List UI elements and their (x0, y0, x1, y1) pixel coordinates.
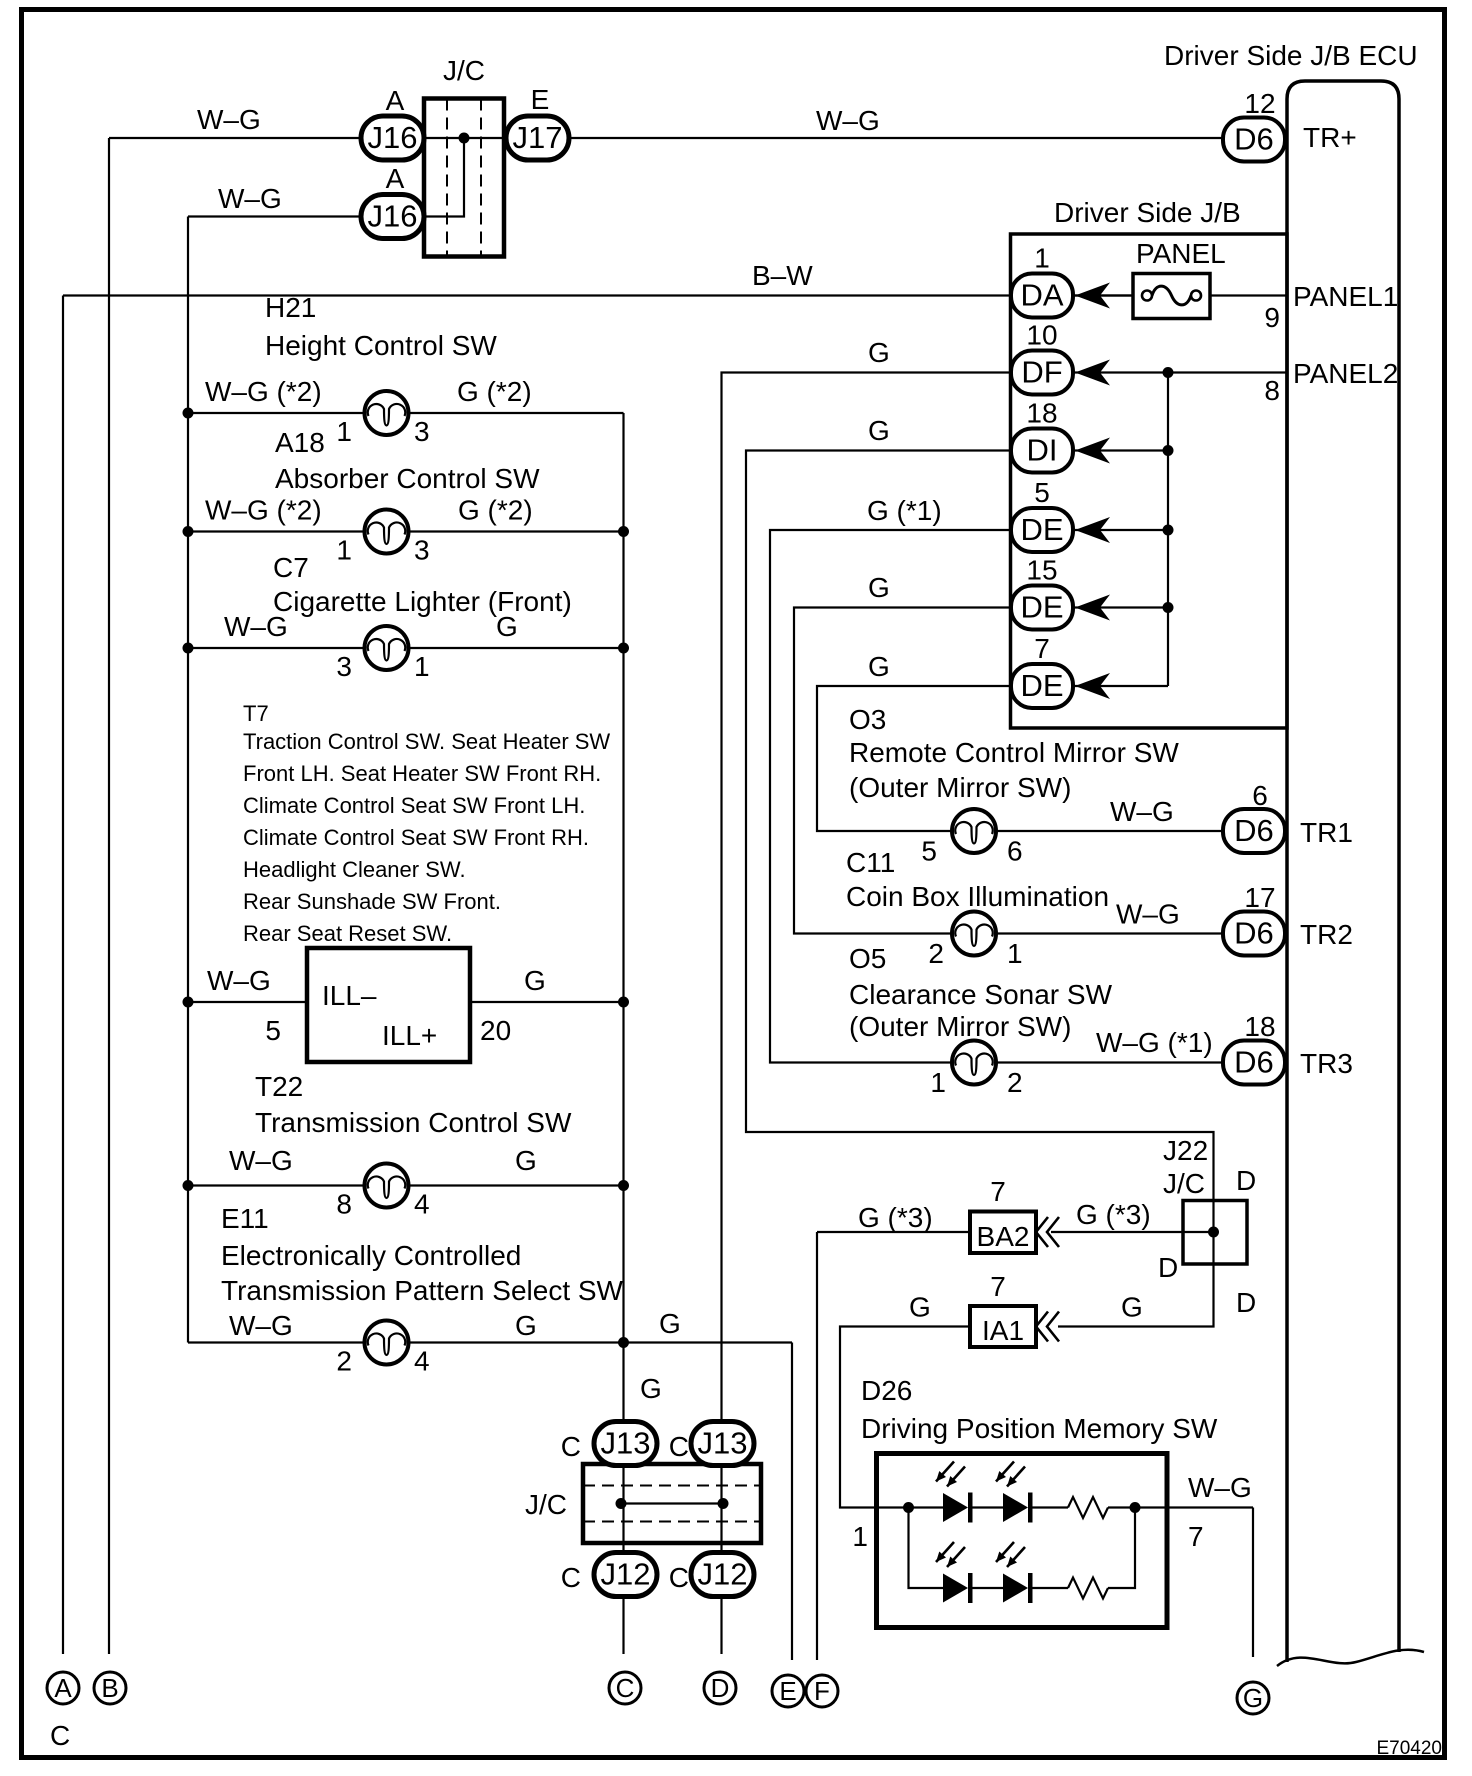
resistor R2 (row2) (1068, 1578, 1108, 1599)
svg-text:1: 1 (852, 1521, 868, 1552)
svg-text:7: 7 (990, 1271, 1006, 1302)
connector J13 pin C (right) (691, 1422, 754, 1466)
svg-text:C: C (561, 1431, 581, 1462)
svg-text:G: G (640, 1373, 662, 1404)
svg-text:4: 4 (414, 1189, 430, 1220)
svg-text:J16: J16 (368, 199, 418, 234)
svg-text:D: D (711, 1673, 730, 1703)
connector D6 pin 17 (TR2) (1223, 912, 1285, 956)
wire G net DE pin7 to O3 remote control mirror sw (817, 686, 1011, 831)
svg-text:Driver Side J/B ECU: Driver Side J/B ECU (1164, 40, 1418, 71)
LED D3 (row2 left) (936, 1542, 973, 1603)
svg-text:IA1: IA1 (982, 1315, 1024, 1346)
node F circle (806, 1675, 838, 1707)
svg-text:D6: D6 (1234, 1045, 1274, 1080)
svg-text:Rear Seat Reset SW.: Rear Seat Reset SW. (243, 921, 452, 946)
svg-text:G: G (515, 1145, 537, 1176)
LED D4 (row2 right) (996, 1542, 1033, 1603)
connector J16 pin A (lower) (361, 195, 424, 239)
svg-text:8: 8 (336, 1189, 352, 1220)
svg-text:Driving Position Memory SW: Driving Position Memory SW (861, 1413, 1218, 1444)
lamp O3 remote control mirror sw (952, 809, 1223, 853)
arrow connector DI (1075, 438, 1110, 464)
svg-text:G (*1): G (*1) (867, 495, 942, 526)
svg-text:E: E (531, 84, 550, 115)
connector DE pin 15 (1011, 586, 1073, 630)
svg-text:H21: H21 (265, 292, 316, 323)
svg-text:PANEL: PANEL (1136, 238, 1226, 269)
svg-text:C7: C7 (273, 552, 309, 583)
svg-text:6: 6 (1007, 836, 1023, 867)
svg-text:ILL–: ILL– (322, 980, 377, 1011)
svg-text:9: 9 (1264, 302, 1280, 333)
wire G net DI: DI oval to J22 J/C and IA1 (746, 451, 1214, 1327)
svg-text:W–G: W–G (1116, 899, 1180, 930)
svg-text:W–G: W–G (229, 1310, 293, 1341)
svg-text:TR1: TR1 (1300, 817, 1353, 848)
arrow connector DE pin5 (1075, 517, 1110, 543)
svg-text:Climate Control Seat SW Front: Climate Control Seat SW Front RH. (243, 825, 589, 850)
svg-text:W–G: W–G (224, 611, 288, 642)
svg-text:1: 1 (930, 1067, 946, 1098)
svg-text:J16: J16 (368, 120, 418, 155)
svg-text:Rear Sunshade SW Front.: Rear Sunshade SW Front. (243, 889, 501, 914)
svg-text:C: C (616, 1673, 635, 1703)
svg-text:W–G: W–G (816, 105, 880, 136)
wire W-G net A2: second J16 feed turning down as supply bus (188, 217, 424, 1343)
svg-text:W–G: W–G (197, 104, 261, 135)
svg-text:J12: J12 (698, 1557, 748, 1592)
wire G(*1) net DE pin5 to O5 clearance sonar sw (770, 530, 1011, 1063)
svg-text:J22: J22 (1163, 1135, 1208, 1166)
svg-text:G: G (524, 965, 546, 996)
svg-text:E11: E11 (221, 1203, 269, 1234)
svg-text:2: 2 (1007, 1067, 1023, 1098)
svg-text:15: 15 (1026, 555, 1057, 586)
svg-text:2: 2 (928, 938, 944, 969)
wire D26 row 1 (877, 1502, 1254, 1657)
fuse PANEL (1133, 274, 1210, 319)
connector J12 pin C (left) (594, 1553, 657, 1597)
svg-text:B: B (101, 1673, 118, 1703)
svg-text:O3: O3 (849, 704, 886, 735)
connector J13 pin C (left) (594, 1422, 657, 1466)
arrow connector DF (1075, 360, 1110, 386)
svg-text:C: C (50, 1720, 70, 1751)
lamp C11 coin box illumination (952, 912, 1223, 956)
svg-text:G (*3): G (*3) (1076, 1199, 1151, 1230)
svg-text:F: F (814, 1676, 830, 1706)
svg-text:(Outer Mirror SW): (Outer Mirror SW) (849, 1011, 1071, 1042)
wire DF row to ECU PANEL2 pin 8 with junction (1073, 371, 1287, 373)
svg-text:D6: D6 (1234, 122, 1274, 157)
svg-text:DE: DE (1020, 590, 1063, 625)
svg-text:7: 7 (1034, 633, 1050, 664)
svg-text:A: A (386, 85, 405, 116)
svg-text:2: 2 (336, 1346, 352, 1377)
svg-text:G: G (515, 1310, 537, 1341)
node B circle (94, 1672, 126, 1704)
svg-text:18: 18 (1244, 1011, 1275, 1042)
connector D6 pin 12 (TR+) (1223, 118, 1285, 162)
junction connector J/C (top) (424, 99, 504, 257)
svg-text:(Outer Mirror SW): (Outer Mirror SW) (849, 772, 1071, 803)
svg-text:ILL+: ILL+ (382, 1020, 437, 1051)
svg-text:DE: DE (1020, 512, 1063, 547)
wire G(*3) from BA2 to J22 (1051, 1231, 1214, 1233)
svg-text:TR2: TR2 (1300, 919, 1353, 950)
arrow connector DE pin7 (1075, 673, 1110, 699)
connector DE pin 5 (1011, 508, 1073, 552)
connector DA pin 1 (1011, 274, 1073, 318)
resistor R1 (row1) (1068, 1497, 1108, 1518)
svg-text:1: 1 (1007, 938, 1023, 969)
svg-text:J13: J13 (698, 1426, 748, 1461)
svg-text:DF: DF (1021, 355, 1062, 390)
svg-text:W–G: W–G (1188, 1472, 1252, 1503)
svg-text:G: G (868, 415, 890, 446)
svg-text:B–W: B–W (752, 260, 813, 291)
svg-text:Cigarette Lighter (Front): Cigarette Lighter (Front) (273, 586, 572, 617)
svg-text:7: 7 (1188, 1521, 1204, 1552)
node E circle (772, 1675, 804, 1707)
svg-text:W–G: W–G (207, 965, 271, 996)
svg-text:W–G (*2): W–G (*2) (205, 495, 322, 526)
svg-text:C: C (669, 1562, 689, 1593)
svg-text:Headlight Cleaner SW.: Headlight Cleaner SW. (243, 857, 466, 882)
svg-text:W–G: W–G (218, 183, 282, 214)
svg-text:G (*2): G (*2) (457, 376, 532, 407)
svg-text:Electronically Controlled: Electronically Controlled (221, 1240, 521, 1271)
svg-text:W–G: W–G (1110, 796, 1174, 827)
wire G net DF: from D rail corner to DF oval (722, 373, 1012, 1655)
svg-text:C: C (669, 1431, 689, 1462)
svg-text:Traction Control SW. Seat Heat: Traction Control SW. Seat Heater SW (243, 729, 610, 754)
svg-text:W–G (*1): W–G (*1) (1096, 1027, 1213, 1058)
svg-text:J/C: J/C (525, 1489, 567, 1520)
node D circle (704, 1672, 736, 1704)
svg-text:G: G (1243, 1683, 1263, 1713)
svg-text:Driver Side J/B: Driver Side J/B (1054, 197, 1241, 228)
svg-text:3: 3 (336, 651, 352, 682)
wire B-W net: from rail A to J/B pin DA (63, 296, 1133, 1655)
lamp C7 cigarette lighter front (183, 626, 630, 670)
svg-text:Transmission Control SW: Transmission Control SW (255, 1107, 572, 1138)
svg-text:20: 20 (480, 1015, 511, 1046)
svg-text:TR3: TR3 (1300, 1048, 1353, 1079)
svg-text:6: 6 (1252, 780, 1268, 811)
connector DE pin 7 (1011, 664, 1073, 708)
LED D1 (row1 left) (936, 1462, 973, 1523)
svg-text:10: 10 (1026, 320, 1057, 351)
svg-text:J/C: J/C (443, 55, 485, 86)
switch block T7 ILL box (183, 948, 630, 1062)
LED D2 (row1 right) (996, 1462, 1033, 1523)
svg-text:G (*2): G (*2) (458, 495, 533, 526)
svg-text:17: 17 (1244, 882, 1275, 913)
svg-text:12: 12 (1244, 88, 1275, 119)
svg-text:J13: J13 (601, 1426, 651, 1461)
svg-text:4: 4 (414, 1346, 430, 1377)
svg-text:18: 18 (1026, 398, 1057, 429)
svg-text:D6: D6 (1234, 916, 1274, 951)
svg-text:5: 5 (265, 1015, 281, 1046)
svg-text:3: 3 (414, 416, 430, 447)
lamp A18 absorber control sw (183, 510, 630, 554)
node A circle (47, 1672, 79, 1704)
connector DF pin 10 (1011, 351, 1073, 395)
wire junction net inside J/B (vertical tie line) (1073, 367, 1174, 686)
connector BA2 pin 7 (817, 1212, 1059, 1661)
svg-text:A: A (386, 163, 405, 194)
svg-text:G: G (909, 1292, 931, 1323)
wire D26 row 2 (909, 1508, 1136, 1589)
wire W-G net B: from vertical rail B to J16 and J17 to ECU TR+ pin 12 (109, 138, 1223, 1654)
svg-text:7: 7 (990, 1176, 1006, 1207)
lamp O5 clearance sonar sw (952, 1041, 1223, 1085)
svg-text:E: E (779, 1676, 796, 1706)
svg-text:D: D (1236, 1287, 1256, 1318)
svg-text:C: C (561, 1562, 581, 1593)
Driver Side J/B box (1011, 234, 1288, 728)
svg-text:G: G (868, 337, 890, 368)
svg-text:G: G (659, 1308, 681, 1339)
svg-text:DI: DI (1027, 433, 1058, 468)
svg-text:8: 8 (1264, 375, 1280, 406)
svg-text:J/C: J/C (1163, 1168, 1205, 1199)
svg-text:PANEL2: PANEL2 (1293, 358, 1398, 389)
svg-text:Clearance Sonar SW: Clearance Sonar SW (849, 979, 1113, 1010)
connector DI pin 18 (1011, 429, 1073, 473)
switch D26 driving position memory sw (877, 1454, 1168, 1628)
connector D6 pin 6 (TR1) (1223, 809, 1285, 853)
svg-text:E70420: E70420 (1376, 1738, 1442, 1759)
svg-text:D: D (1236, 1165, 1256, 1196)
svg-text:PANEL1: PANEL1 (1293, 281, 1398, 312)
node G circle (1237, 1682, 1269, 1714)
svg-text:A18: A18 (275, 427, 325, 458)
svg-text:1: 1 (336, 416, 352, 447)
svg-text:G: G (496, 611, 518, 642)
svg-text:W–G: W–G (229, 1145, 293, 1176)
wire rail (right of switch column, G net) (622, 413, 624, 1654)
svg-text:TR+: TR+ (1303, 122, 1357, 153)
connector J17 pin E (506, 116, 569, 160)
connector D6 pin 18 (TR3) (1223, 1041, 1285, 1085)
svg-text:W–G (*2): W–G (*2) (205, 376, 322, 407)
svg-text:Transmission Pattern Select SW: Transmission Pattern Select SW (221, 1275, 624, 1306)
ECU connector body Driver Side J/B ECU (1277, 81, 1424, 1666)
svg-text:J17: J17 (513, 120, 563, 155)
svg-text:D: D (1158, 1252, 1178, 1283)
svg-text:Coin Box Illumination: Coin Box Illumination (846, 881, 1109, 912)
svg-text:BA2: BA2 (977, 1221, 1030, 1252)
junction connector J/C (bottom) (583, 1464, 761, 1543)
svg-text:T22: T22 (255, 1071, 303, 1102)
wire DA row to fuse and ECU PANEL1 pin 9 (1073, 294, 1287, 296)
node C circle (609, 1672, 641, 1704)
lamp E11 transmission pattern select sw (188, 1321, 792, 1661)
svg-text:1: 1 (336, 535, 352, 566)
svg-text:Remote Control Mirror SW: Remote Control Mirror SW (849, 737, 1179, 768)
svg-text:D26: D26 (861, 1375, 912, 1406)
svg-text:G (*3): G (*3) (858, 1202, 933, 1233)
svg-text:1: 1 (1034, 243, 1050, 274)
svg-text:Height Control SW: Height Control SW (265, 330, 497, 361)
svg-text:Climate Control Seat SW Front: Climate Control Seat SW Front LH. (243, 793, 585, 818)
svg-text:DA: DA (1020, 278, 1063, 313)
arrow connector DA (1075, 283, 1110, 309)
svg-text:J12: J12 (601, 1557, 651, 1592)
connector J12 pin C (right) (691, 1553, 754, 1597)
svg-text:3: 3 (414, 535, 430, 566)
connector IA1 pin 7 (840, 1306, 1059, 1508)
svg-text:Absorber Control SW: Absorber Control SW (275, 463, 540, 494)
lamp T22 transmission control sw (183, 1164, 630, 1208)
lamp H21 height control sw (183, 391, 624, 435)
junction connector J22 J/C (1183, 1201, 1247, 1265)
svg-text:G: G (868, 572, 890, 603)
svg-text:A: A (54, 1673, 72, 1703)
svg-text:G: G (868, 651, 890, 682)
svg-text:Front LH. Seat Heater SW Front: Front LH. Seat Heater SW Front RH. (243, 761, 601, 786)
svg-text:C11: C11 (846, 847, 895, 878)
svg-text:1: 1 (414, 651, 430, 682)
svg-text:DE: DE (1020, 668, 1063, 703)
svg-text:G: G (1121, 1292, 1143, 1323)
wire G net DE pin15 to C11 coin box illumination (794, 608, 1011, 934)
svg-text:5: 5 (921, 836, 937, 867)
connector J16 pin A (upper) (361, 116, 424, 160)
svg-text:T7: T7 (243, 701, 269, 726)
svg-text:D6: D6 (1234, 813, 1274, 848)
svg-text:5: 5 (1034, 477, 1050, 508)
arrow connector DE pin15 (1075, 595, 1110, 621)
svg-text:O5: O5 (849, 943, 886, 974)
